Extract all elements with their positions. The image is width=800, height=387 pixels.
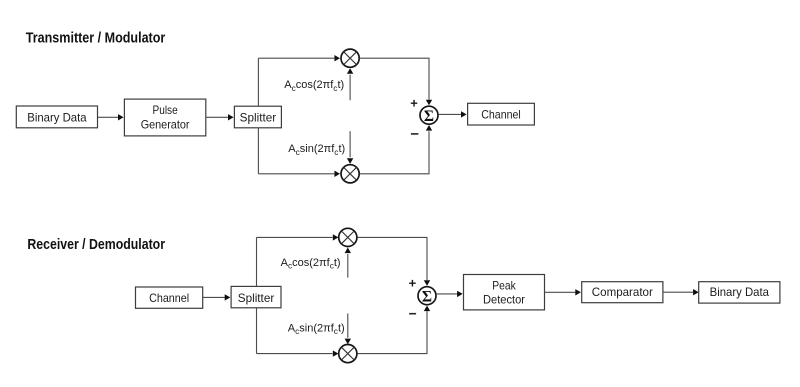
svg-text:Binary Data: Binary Data [27,111,87,125]
svg-text:Acsin(2πfct): Acsin(2πfct) [288,323,345,337]
svg-text:Receiver / Demodulator: Receiver / Demodulator [27,236,165,253]
svg-text:Peak: Peak [492,278,516,292]
svg-text:Splitter: Splitter [238,291,275,305]
svg-text:Accos(2πfct): Accos(2πfct) [281,257,341,271]
svg-text:Transmitter / Modulator: Transmitter / Modulator [26,29,166,46]
svg-text:Channel: Channel [481,108,521,122]
svg-text:Pulse: Pulse [153,103,178,117]
svg-text:Channel: Channel [149,291,189,305]
svg-text:Acsin(2πfct): Acsin(2πfct) [288,143,345,157]
svg-text:Generator: Generator [141,118,190,132]
svg-text:Comparator: Comparator [592,285,653,299]
svg-text:Detector: Detector [483,293,525,307]
svg-text:Accos(2πfct): Accos(2πfct) [284,79,344,93]
svg-text:Binary Data: Binary Data [710,285,770,299]
svg-text:Splitter: Splitter [240,111,277,125]
svg-text:+: + [410,96,418,111]
svg-text:Σ: Σ [422,288,432,305]
svg-text:Σ: Σ [424,108,434,125]
svg-text:+: + [409,275,417,290]
